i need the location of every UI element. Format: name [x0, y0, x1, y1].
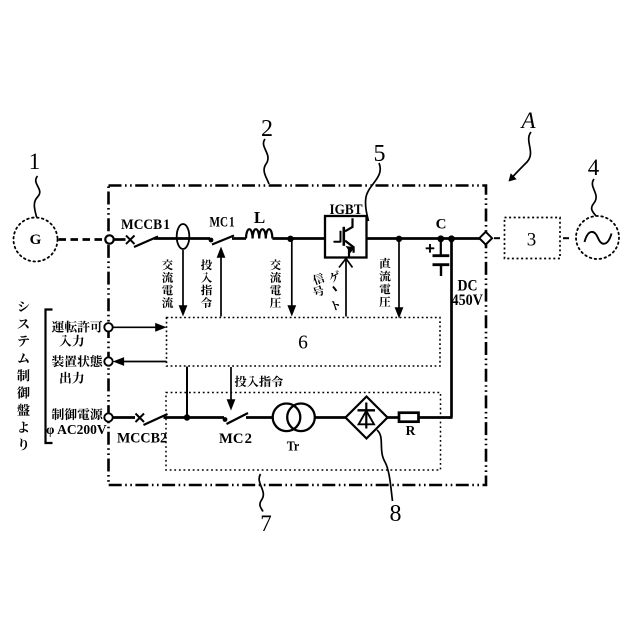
- label: device status output: [52, 355, 102, 384]
- svg-text:4: 4: [588, 155, 600, 180]
- capacitor C (polarized): [426, 239, 450, 276]
- CT ellipse on line: [177, 224, 190, 249]
- svg-text:MC 1: MC 1: [210, 215, 235, 231]
- label AC voltage (vertical): [270, 259, 281, 308]
- svg-text:IGBT: IGBT: [330, 202, 363, 218]
- op IGBT box U5: [325, 216, 367, 258]
- bracket: [46, 310, 53, 444]
- wire: generator to input terminal (dashed): [59, 238, 105, 241]
- leader line to 8: [377, 430, 393, 501]
- wire rectifier to R: [388, 416, 400, 419]
- wire junction up to controller box: [186, 367, 188, 418]
- breaker MCCB1 (x contact + blade): [126, 236, 158, 248]
- AC load circle 4: [576, 216, 619, 259]
- label close command (vertical): [201, 259, 212, 308]
- inductor L: [246, 229, 272, 238]
- svg-text:A: A: [519, 108, 536, 133]
- svg-text:L: L: [254, 208, 265, 227]
- svg-text:Tr: Tr: [287, 439, 300, 454]
- label: run permission input: [52, 321, 103, 347]
- breaker MCCB2 (x contact + blade): [136, 414, 168, 426]
- IGBT internal symbol: [334, 218, 354, 257]
- wire terminal to MCCB1: [114, 238, 126, 241]
- wire Tr to rectifier: [315, 416, 346, 419]
- DC bus wire down to bottom row: [450, 239, 453, 418]
- leader line to 5: [366, 163, 381, 221]
- junction node (AC voltage tap): [287, 236, 293, 242]
- input terminal: [105, 235, 113, 243]
- svg-text:MC 2: MC 2: [219, 431, 252, 447]
- junction node (DC voltage tap): [396, 236, 402, 242]
- arrow out of controller (left): [113, 357, 167, 366]
- controller box 6 (dotted): [167, 318, 441, 367]
- signal arrow: DC voltage (down): [395, 241, 404, 319]
- leader line to 4: [592, 179, 597, 216]
- terminal: device status: [104, 357, 112, 365]
- terminal: control power: [104, 413, 112, 421]
- arrow into controller (right): [113, 323, 167, 332]
- terminal: run permission: [104, 323, 112, 331]
- svg-text:7: 7: [260, 511, 272, 536]
- svg-text:8: 8: [390, 501, 402, 527]
- label AC current (vertical): [162, 259, 173, 308]
- label close command 2 (horizontal): [235, 376, 283, 388]
- wire IGBT to output terminal: [367, 237, 480, 240]
- svg-text:C: C: [436, 217, 447, 233]
- wire R to DC bus: [419, 416, 453, 419]
- junction node to controller: [184, 414, 190, 420]
- contactor MC1 (contact + blade): [209, 236, 234, 245]
- svg-text:R: R: [406, 423, 416, 438]
- signal arrow: close command MC2 (down): [227, 367, 236, 411]
- transformer Tr (two circles): [273, 404, 315, 432]
- wire MCCB1 to MC1: [154, 237, 210, 240]
- label DC voltage (vertical): [380, 258, 391, 307]
- wire MC2 to Tr: [246, 416, 273, 419]
- svg-text:450V: 450V: [452, 292, 484, 309]
- main enclosure box A (dash-dot-dot border): [109, 186, 487, 486]
- svg-text:3: 3: [527, 229, 537, 250]
- leader line to 1: [34, 176, 39, 217]
- wire MC1 to L: [232, 237, 246, 240]
- leader line to 7: [259, 474, 263, 512]
- wire: terminal to box 3 (dashed): [494, 237, 503, 239]
- wire L to IGBT: [272, 237, 324, 240]
- label gate signal (two slanted vertical columns): [312, 270, 342, 311]
- wire MCCB2 to MC2: [164, 416, 225, 419]
- box 3 (dotted): [505, 218, 561, 259]
- signal arrow: AC voltage (down): [287, 241, 296, 317]
- resistor R: [399, 413, 419, 422]
- svg-text:φ AC200V: φ AC200V: [46, 422, 107, 437]
- wire: box 3 to load 4 (dashed): [563, 237, 572, 239]
- generator G1: [14, 218, 58, 262]
- junction node (capacitor tap): [437, 235, 444, 242]
- signal arrow: AC current (down): [179, 250, 188, 317]
- leader line to 2: [263, 139, 269, 184]
- output terminal (diamond): [479, 232, 492, 245]
- contactor MC2 (contact + blade): [223, 413, 248, 424]
- bottom auxiliary box (dotted): [166, 393, 441, 471]
- label: from system control panel (vertical): [17, 302, 30, 451]
- wire terminal to MCCB2: [112, 416, 135, 419]
- svg-text:MCCB 1: MCCB 1: [121, 217, 170, 233]
- svg-text:2: 2: [261, 116, 273, 142]
- svg-text:MCCB2: MCCB2: [117, 431, 167, 447]
- leader arrow from A into box corner: [509, 132, 532, 182]
- svg-text:1: 1: [29, 149, 41, 174]
- signal arrow: gate signal (up): [339, 259, 353, 317]
- svg-text:6: 6: [298, 333, 308, 354]
- signal arrow: close command MC1 (up): [217, 247, 226, 317]
- junction node (bus tap): [448, 235, 455, 242]
- label: control power: [52, 408, 103, 420]
- rectifier bridge 8 (diamond with diode): [346, 397, 388, 439]
- svg-text:G: G: [30, 232, 42, 248]
